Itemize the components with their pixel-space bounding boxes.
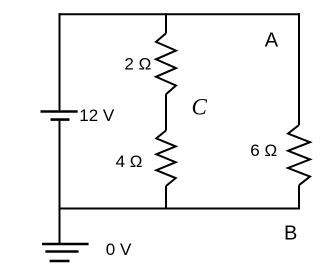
wire right branch lower — [298, 185, 300, 209]
wire bottom rail — [59, 208, 301, 210]
wire left branch upper — [59, 13, 61, 110]
wire middle branch upper — [165, 13, 167, 33]
resistor 6 ohm — [288, 125, 310, 185]
svg-text:0 V: 0 V — [106, 240, 132, 259]
battery V1 12 V short plate — [51, 118, 70, 121]
wire left branch lower — [59, 121, 61, 243]
resistor 4 ohm — [156, 131, 175, 187]
ground bar 3 — [50, 260, 70, 263]
svg-text:C: C — [192, 95, 208, 120]
ground bar 1 — [42, 243, 89, 246]
svg-text:B: B — [284, 223, 297, 245]
wire top rail — [59, 13, 301, 15]
resistor 2 ohm — [156, 33, 176, 94]
svg-text:12 V: 12 V — [79, 106, 115, 125]
svg-text:A: A — [265, 29, 279, 51]
svg-text:2 Ω: 2 Ω — [124, 54, 151, 73]
ground bar 2 — [45, 250, 78, 253]
wire right branch upper — [298, 13, 300, 125]
wire middle branch lower — [165, 186, 167, 210]
svg-text:4 Ω: 4 Ω — [116, 152, 143, 171]
wire middle branch between resistors — [165, 94, 167, 130]
svg-text:6 Ω: 6 Ω — [250, 141, 277, 160]
battery V1 12 V long plate — [41, 110, 78, 112]
